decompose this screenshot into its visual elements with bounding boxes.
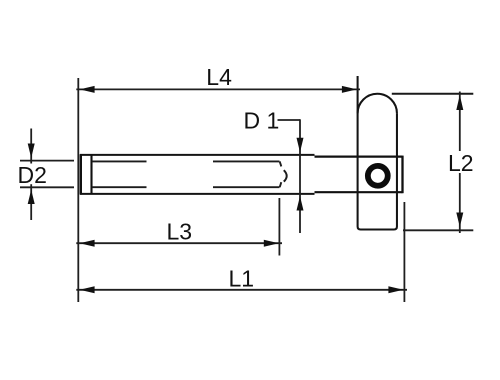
L3 left arrowhead <box>80 240 95 247</box>
L2 dimension line upper segment <box>459 92 461 152</box>
L2 upper arrowhead pointing up <box>456 95 463 110</box>
blade right edge <box>396 113 398 226</box>
D2 dimension line lower segment <box>30 184 32 220</box>
svg-text:L4: L4 <box>206 64 232 90</box>
svg-text:L2: L2 <box>448 150 474 176</box>
bore end tick bottom <box>280 182 282 187</box>
D1 dimension line through rod <box>299 119 301 233</box>
dimension L4 line <box>76 88 360 90</box>
D1 leader horizontal <box>278 119 301 121</box>
head plate top edge <box>315 156 403 158</box>
L1 left arrowhead <box>80 286 95 293</box>
L2 dimension line lower segment <box>459 173 461 233</box>
hidden bore bottom line right dash <box>213 186 280 188</box>
svg-text:L1: L1 <box>229 265 255 291</box>
L3 right arrowhead <box>264 240 279 247</box>
svg-text:L3: L3 <box>167 219 193 245</box>
L2 lower arrowhead pointing down <box>456 213 463 228</box>
D2 dimension line upper segment <box>30 129 32 164</box>
rod body bottom edge <box>80 193 315 195</box>
hole circle in head <box>368 166 388 186</box>
head plate right edge <box>401 156 403 194</box>
L1 right extension line <box>403 202 405 302</box>
L4 right arrowhead <box>342 86 357 93</box>
head plate bottom edge <box>315 191 403 193</box>
dimension L3 line <box>76 242 282 244</box>
rod chamfer line <box>90 155 92 194</box>
D2 upper arrowhead pointing down <box>28 144 35 159</box>
D1 upper arrowhead pointing down <box>297 138 304 153</box>
svg-text:D2: D2 <box>18 162 47 188</box>
D2 top extension line <box>20 160 74 162</box>
hidden bore bottom line left dash <box>92 186 147 188</box>
D2 bottom extension line <box>20 186 74 188</box>
hidden bore top line right dash <box>213 160 280 162</box>
hidden bore top line left dash <box>92 160 147 162</box>
rod left end face <box>80 154 82 194</box>
rod body top edge <box>80 154 315 156</box>
blade bottom edge with rounded corners <box>358 227 397 230</box>
L4 left arrowhead <box>80 86 95 93</box>
dimension L1 line <box>76 289 407 291</box>
L2 top extension line <box>392 93 474 95</box>
bore drill point arc <box>284 170 287 181</box>
bore end tick top <box>280 161 282 166</box>
svg-text:D 1: D 1 <box>244 108 280 134</box>
dome arc top of blade <box>358 94 397 114</box>
L3 right extension line <box>278 198 280 256</box>
left extension line for L1 L3 L4 <box>77 78 79 302</box>
L2 bottom extension line <box>403 229 473 231</box>
D1 lower arrowhead pointing up <box>297 196 304 211</box>
blade left edge with L4 extension line <box>357 76 359 227</box>
D2 lower arrowhead pointing up <box>28 190 35 204</box>
L1 right arrowhead <box>388 286 403 293</box>
